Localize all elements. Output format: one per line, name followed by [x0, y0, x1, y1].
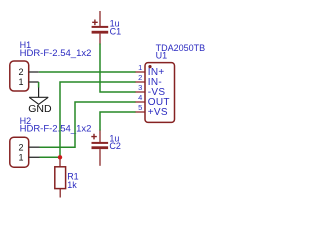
H1 pin 2 stub [29, 71, 39, 73]
header H2 [10, 137, 29, 167]
op-amp U1 TDA2050TB [145, 63, 175, 123]
U1 pin 4 [135, 101, 145, 103]
junction node [58, 155, 62, 159]
H2 pin 1 stub [29, 156, 40, 158]
svg-text:HDR-F-2.54_1x2: HDR-F-2.54_1x2 [20, 123, 92, 134]
svg-text:1: 1 [18, 152, 23, 162]
svg-text:U1: U1 [156, 51, 168, 61]
svg-text:2: 2 [138, 73, 142, 82]
wire net H1.2 to U1 pin1 IN+ [39, 71, 136, 73]
svg-text:1: 1 [138, 63, 142, 72]
header H1 [10, 61, 29, 91]
wire H1.1 to GND [38, 82, 40, 88]
svg-text:2: 2 [18, 142, 23, 152]
U1 pin 3 [135, 91, 145, 93]
svg-text:2: 2 [18, 67, 23, 77]
svg-text:1: 1 [18, 77, 23, 87]
wire C1 bottom to U1 pin3 -VS [100, 44, 136, 93]
capacitor C2 [91, 130, 108, 166]
svg-text:3: 3 [138, 83, 142, 92]
wire H2.1 to junction [40, 156, 61, 158]
capacitor C1 [92, 11, 109, 45]
U1 pin 5 [135, 111, 145, 113]
svg-text:GND: GND [28, 103, 52, 115]
svg-text:1k: 1k [67, 180, 77, 190]
resistor R1 [55, 157, 66, 197]
ground [29, 87, 48, 104]
svg-text:C2: C2 [109, 141, 121, 151]
U1 pin 2 [135, 81, 145, 83]
svg-text:+VS: +VS [148, 107, 168, 118]
svg-text:4: 4 [138, 93, 142, 102]
svg-text:C1: C1 [110, 26, 122, 36]
U1 pin 1 [135, 71, 145, 73]
svg-text:5: 5 [138, 103, 142, 112]
H2 pin 2 stub [29, 146, 40, 148]
wire U1 pin4 OUT to H2.2 [40, 102, 136, 147]
wire U1 pin5 +VS to C2 top [100, 112, 136, 131]
wire net U1 pin2 IN- to junction [60, 82, 136, 157]
svg-text:HDR-F-2.54_1x2: HDR-F-2.54_1x2 [20, 48, 92, 59]
H1 pin 1 stub [29, 81, 39, 83]
